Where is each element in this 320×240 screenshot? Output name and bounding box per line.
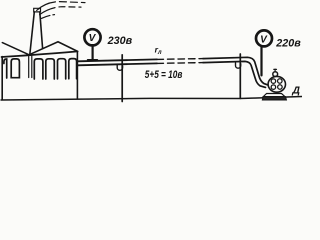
svg-text:230в: 230в [107, 35, 133, 47]
svg-text:220в: 220в [275, 38, 301, 50]
svg-text:5+5 = 10в: 5+5 = 10в [145, 69, 183, 81]
svg-text:Д: Д [291, 84, 300, 96]
